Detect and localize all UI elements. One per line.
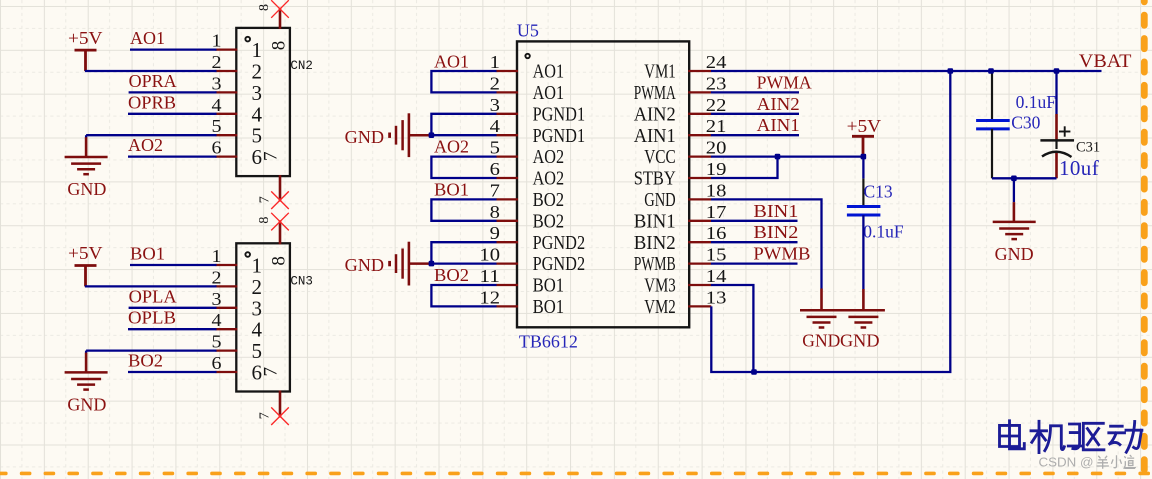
wire AO1 pin 1	[130, 48, 217, 50]
svg-text:BIN1: BIN1	[634, 210, 676, 232]
svg-text:9: 9	[490, 223, 500, 243]
svg-text:8: 8	[269, 256, 290, 266]
net label AO1	[130, 28, 165, 48]
svg-text:GND: GND	[840, 331, 880, 351]
svg-text:GND: GND	[995, 244, 1034, 264]
svg-text:2: 2	[212, 52, 222, 72]
net label OPLA	[129, 286, 177, 306]
ground GND symbol (CN2)	[65, 137, 108, 199]
svg-text:BIN2: BIN2	[634, 232, 676, 254]
CN3 pin 1 stub	[212, 246, 238, 266]
U5 pin 11 (BO1)	[479, 266, 564, 297]
power VBAT label	[1079, 51, 1132, 72]
svg-text:21: 21	[706, 116, 727, 136]
svg-text:14: 14	[706, 266, 727, 286]
svg-text:7: 7	[258, 196, 273, 203]
svg-text:1: 1	[212, 31, 222, 51]
U5 pin 23 (PWMA)	[634, 73, 727, 104]
svg-text:VBAT: VBAT	[1079, 51, 1132, 72]
svg-text:BO1: BO1	[130, 244, 165, 264]
svg-text:1: 1	[490, 52, 500, 72]
svg-text:8: 8	[269, 41, 290, 51]
CN2 pin 8 (no connect)	[257, 0, 289, 29]
svg-text:3: 3	[252, 296, 263, 320]
junction C30 VBAT	[988, 68, 994, 74]
svg-text:VM2: VM2	[644, 296, 676, 318]
svg-text:OPLA: OPLA	[129, 286, 177, 306]
svg-text:24: 24	[706, 52, 727, 72]
svg-text:5: 5	[252, 339, 263, 363]
svg-text:1: 1	[252, 38, 263, 62]
svg-text:AIN2: AIN2	[757, 94, 800, 114]
U5 pin 14 (VM3)	[644, 266, 726, 297]
U5 pin 15 (PWMB)	[634, 245, 727, 276]
wire pin 5 to GND	[86, 351, 216, 354]
wire +5V to pin 2	[85, 285, 217, 287]
CN3 pin 5 stub	[212, 332, 238, 352]
junction ground bus	[1011, 176, 1017, 182]
svg-text:AIN1: AIN1	[757, 115, 800, 135]
value TB6612	[519, 332, 578, 352]
svg-text:BO1: BO1	[533, 275, 565, 297]
wire BO1 pins 7-8	[431, 199, 496, 220]
svg-text:CSDN @: CSDN @	[1039, 455, 1094, 470]
svg-text:7: 7	[260, 367, 281, 377]
net label BIN2	[753, 222, 798, 242]
svg-text:12: 12	[479, 287, 500, 307]
wire pin 5 to GND	[86, 135, 216, 138]
svg-text:BO2: BO2	[533, 189, 565, 211]
U5 pin 5 (AO2)	[490, 138, 564, 169]
svg-text:3: 3	[252, 81, 263, 105]
wire +5V to pin 2	[85, 70, 217, 72]
CN2 pin 2 stub	[212, 52, 238, 72]
wire OPRA pin 3	[129, 91, 217, 93]
net label BO2 (U5)	[434, 265, 469, 285]
watermark CSDN @羊小道	[1039, 455, 1094, 470]
svg-text:AO2: AO2	[533, 168, 565, 190]
svg-text:PGND2: PGND2	[533, 253, 586, 275]
U5 pin 24 (VM1)	[644, 52, 726, 83]
svg-text:+5V: +5V	[847, 116, 882, 136]
U5 pin 16 (BIN2)	[634, 223, 727, 254]
U5 pin 10 (PGND2)	[479, 245, 585, 276]
wire PWMB	[711, 262, 798, 264]
wire VM1 to VBAT rail	[711, 70, 1102, 72]
CN3 pin 8 (no connect)	[257, 213, 289, 245]
junction pins 9-10 GND	[429, 261, 435, 267]
CN3 pin 6 stub	[212, 353, 238, 373]
svg-text:STBY: STBY	[634, 168, 676, 190]
wire AO2 pins 5-6	[431, 157, 496, 178]
junction C31 VBAT	[1054, 68, 1060, 74]
power +5V symbol (VCC)	[847, 116, 882, 157]
net label PWMB	[753, 244, 810, 264]
connector CN3 body	[236, 243, 290, 391]
designator CN3	[290, 275, 313, 289]
CN3 pin 2 stub	[212, 267, 238, 287]
U5 pin 7 (BO2)	[490, 180, 564, 211]
svg-text:PGND1: PGND1	[533, 103, 586, 125]
wire C13 to ground	[862, 215, 864, 289]
designator U5	[517, 20, 539, 40]
svg-text:4: 4	[490, 116, 500, 136]
svg-text:10uf: 10uf	[1059, 156, 1099, 180]
capacitor C31 (polarized)	[1040, 72, 1100, 180]
net label AO2	[128, 135, 163, 155]
CN3 pin 4 stub	[212, 310, 238, 330]
wire GND pin 18	[711, 199, 822, 288]
wire PGND2 pins 9-10	[431, 242, 496, 263]
svg-text:1: 1	[212, 246, 222, 266]
svg-text:16: 16	[706, 223, 727, 243]
U5 pin 3 (PGND1)	[490, 95, 585, 126]
net label PWMA	[757, 72, 812, 92]
wire OPLB pin 4	[128, 328, 217, 330]
svg-text:C31: C31	[1076, 139, 1100, 155]
junction STBY-VCC	[775, 154, 781, 160]
wire VM2 pin 13 bus to VBAT	[711, 72, 950, 372]
wire OPRB pin 4	[128, 113, 217, 115]
svg-text:OPRA: OPRA	[129, 71, 177, 91]
ground GND symbol (VBAT caps)	[993, 202, 1036, 264]
svg-text:17: 17	[706, 202, 727, 222]
svg-text:OPRB: OPRB	[128, 92, 176, 112]
svg-text:BO2: BO2	[128, 351, 163, 371]
svg-text:2: 2	[252, 60, 263, 84]
wire AIN2	[711, 113, 799, 115]
svg-text:3: 3	[212, 289, 222, 309]
U5 pin 6 (AO2)	[490, 159, 564, 190]
svg-text:20: 20	[706, 138, 727, 158]
svg-text:19: 19	[706, 159, 727, 179]
ground GND symbol (C13)	[840, 289, 885, 351]
junction bus VBAT	[948, 68, 954, 74]
svg-text:4: 4	[212, 95, 222, 115]
svg-text:AIN2: AIN2	[634, 103, 676, 125]
svg-text:OPLB: OPLB	[128, 308, 176, 328]
svg-text:1: 1	[252, 254, 263, 278]
net label AO1 (U5)	[434, 51, 469, 71]
wire BO2 pin 6	[128, 371, 217, 373]
CN3 pin 3 stub	[212, 289, 238, 309]
svg-text:2: 2	[490, 73, 500, 93]
U5 pin 22 (AIN2)	[634, 95, 727, 126]
CN2 pin 7 (no connect)	[258, 175, 289, 209]
power +5V symbol (CN3)	[68, 243, 103, 286]
net label BO1 (U5)	[434, 180, 469, 200]
IC U5 body (TB6612 motor driver)	[517, 41, 689, 327]
svg-text:AO1: AO1	[533, 82, 565, 104]
svg-text:8: 8	[257, 217, 272, 224]
svg-text:+5V: +5V	[68, 243, 103, 263]
svg-text:8: 8	[490, 202, 500, 222]
U5 pin 9 (PGND2)	[490, 223, 585, 254]
net label AIN1	[757, 115, 800, 135]
svg-text:GND: GND	[67, 179, 106, 199]
svg-text:22: 22	[706, 95, 727, 115]
wire VCC to +5V	[711, 155, 863, 157]
svg-text:VCC: VCC	[644, 146, 676, 168]
svg-text:8: 8	[257, 4, 272, 11]
svg-text:AO1: AO1	[434, 51, 469, 71]
svg-text:VM1: VM1	[644, 61, 676, 83]
U5 pin 1 (AO1)	[490, 52, 564, 83]
svg-text:PWMB: PWMB	[753, 244, 810, 264]
junction VCC +5V	[861, 154, 867, 160]
svg-text:BO2: BO2	[434, 265, 469, 285]
svg-text:4: 4	[252, 102, 263, 126]
svg-text:15: 15	[706, 245, 727, 265]
ground GND symbol (PGND2)	[345, 242, 432, 286]
power +5V symbol (CN2)	[68, 28, 103, 71]
U5 pin 17 (BIN1)	[634, 202, 727, 233]
net label BO1	[130, 244, 165, 264]
net label OPRA	[129, 71, 177, 91]
svg-text:6: 6	[212, 353, 222, 373]
CN2 pin 5 stub	[212, 116, 238, 136]
svg-text:TB6612: TB6612	[519, 332, 578, 352]
svg-text:18: 18	[706, 180, 727, 200]
svg-text:U5: U5	[517, 20, 539, 40]
CN2 pin 4 stub	[212, 95, 238, 115]
capacitor C30	[976, 72, 1056, 178]
svg-text:2: 2	[212, 267, 222, 287]
capacitor C13	[847, 159, 904, 242]
svg-text:GND: GND	[345, 127, 385, 147]
svg-text:7: 7	[260, 152, 281, 162]
wire PGND1 pins 3-4	[431, 114, 496, 135]
svg-text:0.1uF: 0.1uF	[1016, 92, 1057, 112]
svg-text:PGND1: PGND1	[533, 125, 586, 147]
wire VM3 pin 14 down	[711, 285, 753, 372]
svg-text:GND: GND	[67, 395, 106, 415]
svg-text:BO1: BO1	[434, 180, 469, 200]
wire BO1 pin 1	[130, 264, 217, 266]
designator CN2	[290, 59, 313, 73]
svg-text:C13: C13	[864, 181, 893, 201]
CN2 pin 6 stub	[212, 138, 238, 158]
svg-text:7: 7	[490, 180, 500, 200]
CN3 pin 7 (no connect)	[258, 391, 289, 426]
wire BIN1	[711, 220, 798, 222]
svg-text:10: 10	[479, 245, 500, 265]
U5 pin 19 (STBY)	[634, 159, 727, 190]
svg-text:AO2: AO2	[533, 146, 565, 168]
svg-text:AO2: AO2	[128, 135, 163, 155]
svg-text:PWMB: PWMB	[634, 253, 676, 275]
wire STBY joins VCC	[711, 157, 778, 178]
svg-text:AO2: AO2	[434, 137, 469, 157]
junction pins 3-4 GND	[429, 132, 435, 138]
net label OPLB	[128, 308, 176, 328]
svg-text:BIN1: BIN1	[753, 201, 798, 221]
svg-text:C30: C30	[1011, 112, 1040, 132]
net label BIN1	[753, 201, 798, 221]
U5 pin 13 (VM2)	[644, 287, 726, 318]
U5 pin 18 (GND)	[644, 180, 726, 211]
svg-text:GND: GND	[644, 189, 676, 211]
wire BIN2	[711, 241, 798, 243]
CN2 pin 1 stub	[212, 31, 238, 51]
svg-text:5: 5	[490, 138, 500, 158]
svg-text:11: 11	[479, 266, 500, 286]
svg-text:23: 23	[706, 73, 727, 93]
wire OPLA pin 3	[129, 307, 217, 309]
CN2 pin 3 stub	[212, 73, 238, 93]
svg-text:2: 2	[252, 275, 263, 299]
svg-text:7: 7	[258, 412, 273, 419]
wire AIN1	[711, 134, 799, 136]
svg-text:4: 4	[212, 310, 222, 330]
svg-text:5: 5	[212, 116, 222, 136]
svg-text:GND: GND	[345, 255, 385, 275]
U5 pin 12 (BO1)	[479, 287, 564, 318]
net label BO2	[128, 351, 163, 371]
wire C30-C31 ground bus	[992, 178, 1057, 202]
svg-text:PGND2: PGND2	[533, 232, 586, 254]
connector CN2 body	[236, 28, 290, 176]
svg-text:AIN1: AIN1	[634, 125, 676, 147]
U5 pin 8 (BO2)	[490, 202, 564, 233]
ground GND symbol (PGND1)	[345, 113, 432, 157]
ground GND symbol (pin 18)	[800, 289, 843, 351]
svg-text:6: 6	[212, 138, 222, 158]
svg-text:3: 3	[212, 73, 222, 93]
ground GND symbol (CN3)	[65, 353, 108, 415]
svg-text:BO2: BO2	[533, 210, 565, 232]
svg-text:GND: GND	[802, 331, 840, 351]
U5 pin 2 (AO1)	[490, 73, 564, 104]
U5 pin 4 (PGND1)	[490, 116, 585, 147]
svg-text:CN2: CN2	[290, 59, 313, 73]
svg-text:CN3: CN3	[290, 275, 313, 289]
net label AO2 (U5)	[434, 137, 469, 157]
svg-text:PWMA: PWMA	[634, 82, 676, 104]
svg-text:BIN2: BIN2	[753, 222, 798, 242]
svg-text:PWMA: PWMA	[757, 72, 812, 92]
U5 pin 20 (VCC)	[644, 138, 726, 169]
svg-text:AO1: AO1	[533, 61, 565, 83]
svg-text:AO1: AO1	[130, 28, 165, 48]
svg-text:6: 6	[490, 159, 500, 179]
wire BO2 pins 11-12	[431, 285, 496, 306]
svg-text:0.1uF: 0.1uF	[863, 221, 904, 241]
svg-text:13: 13	[706, 287, 727, 307]
svg-text:5: 5	[252, 124, 263, 148]
svg-text:4: 4	[252, 318, 263, 342]
title text 电机驱动	[1000, 421, 1142, 453]
net label AIN2	[757, 94, 800, 114]
U5 pin 21 (AIN1)	[634, 116, 727, 147]
svg-text:3: 3	[490, 95, 500, 115]
svg-text:+5V: +5V	[68, 28, 103, 48]
svg-text:VM3: VM3	[644, 275, 676, 297]
wire AO1 pins 1-2	[431, 71, 496, 92]
svg-text:5: 5	[212, 332, 222, 352]
net label OPRB	[128, 92, 176, 112]
svg-text:BO1: BO1	[533, 296, 565, 318]
junction VM3 bus	[751, 369, 757, 375]
wire PWMA	[711, 91, 799, 93]
wire AO2 pin 6	[128, 155, 217, 157]
